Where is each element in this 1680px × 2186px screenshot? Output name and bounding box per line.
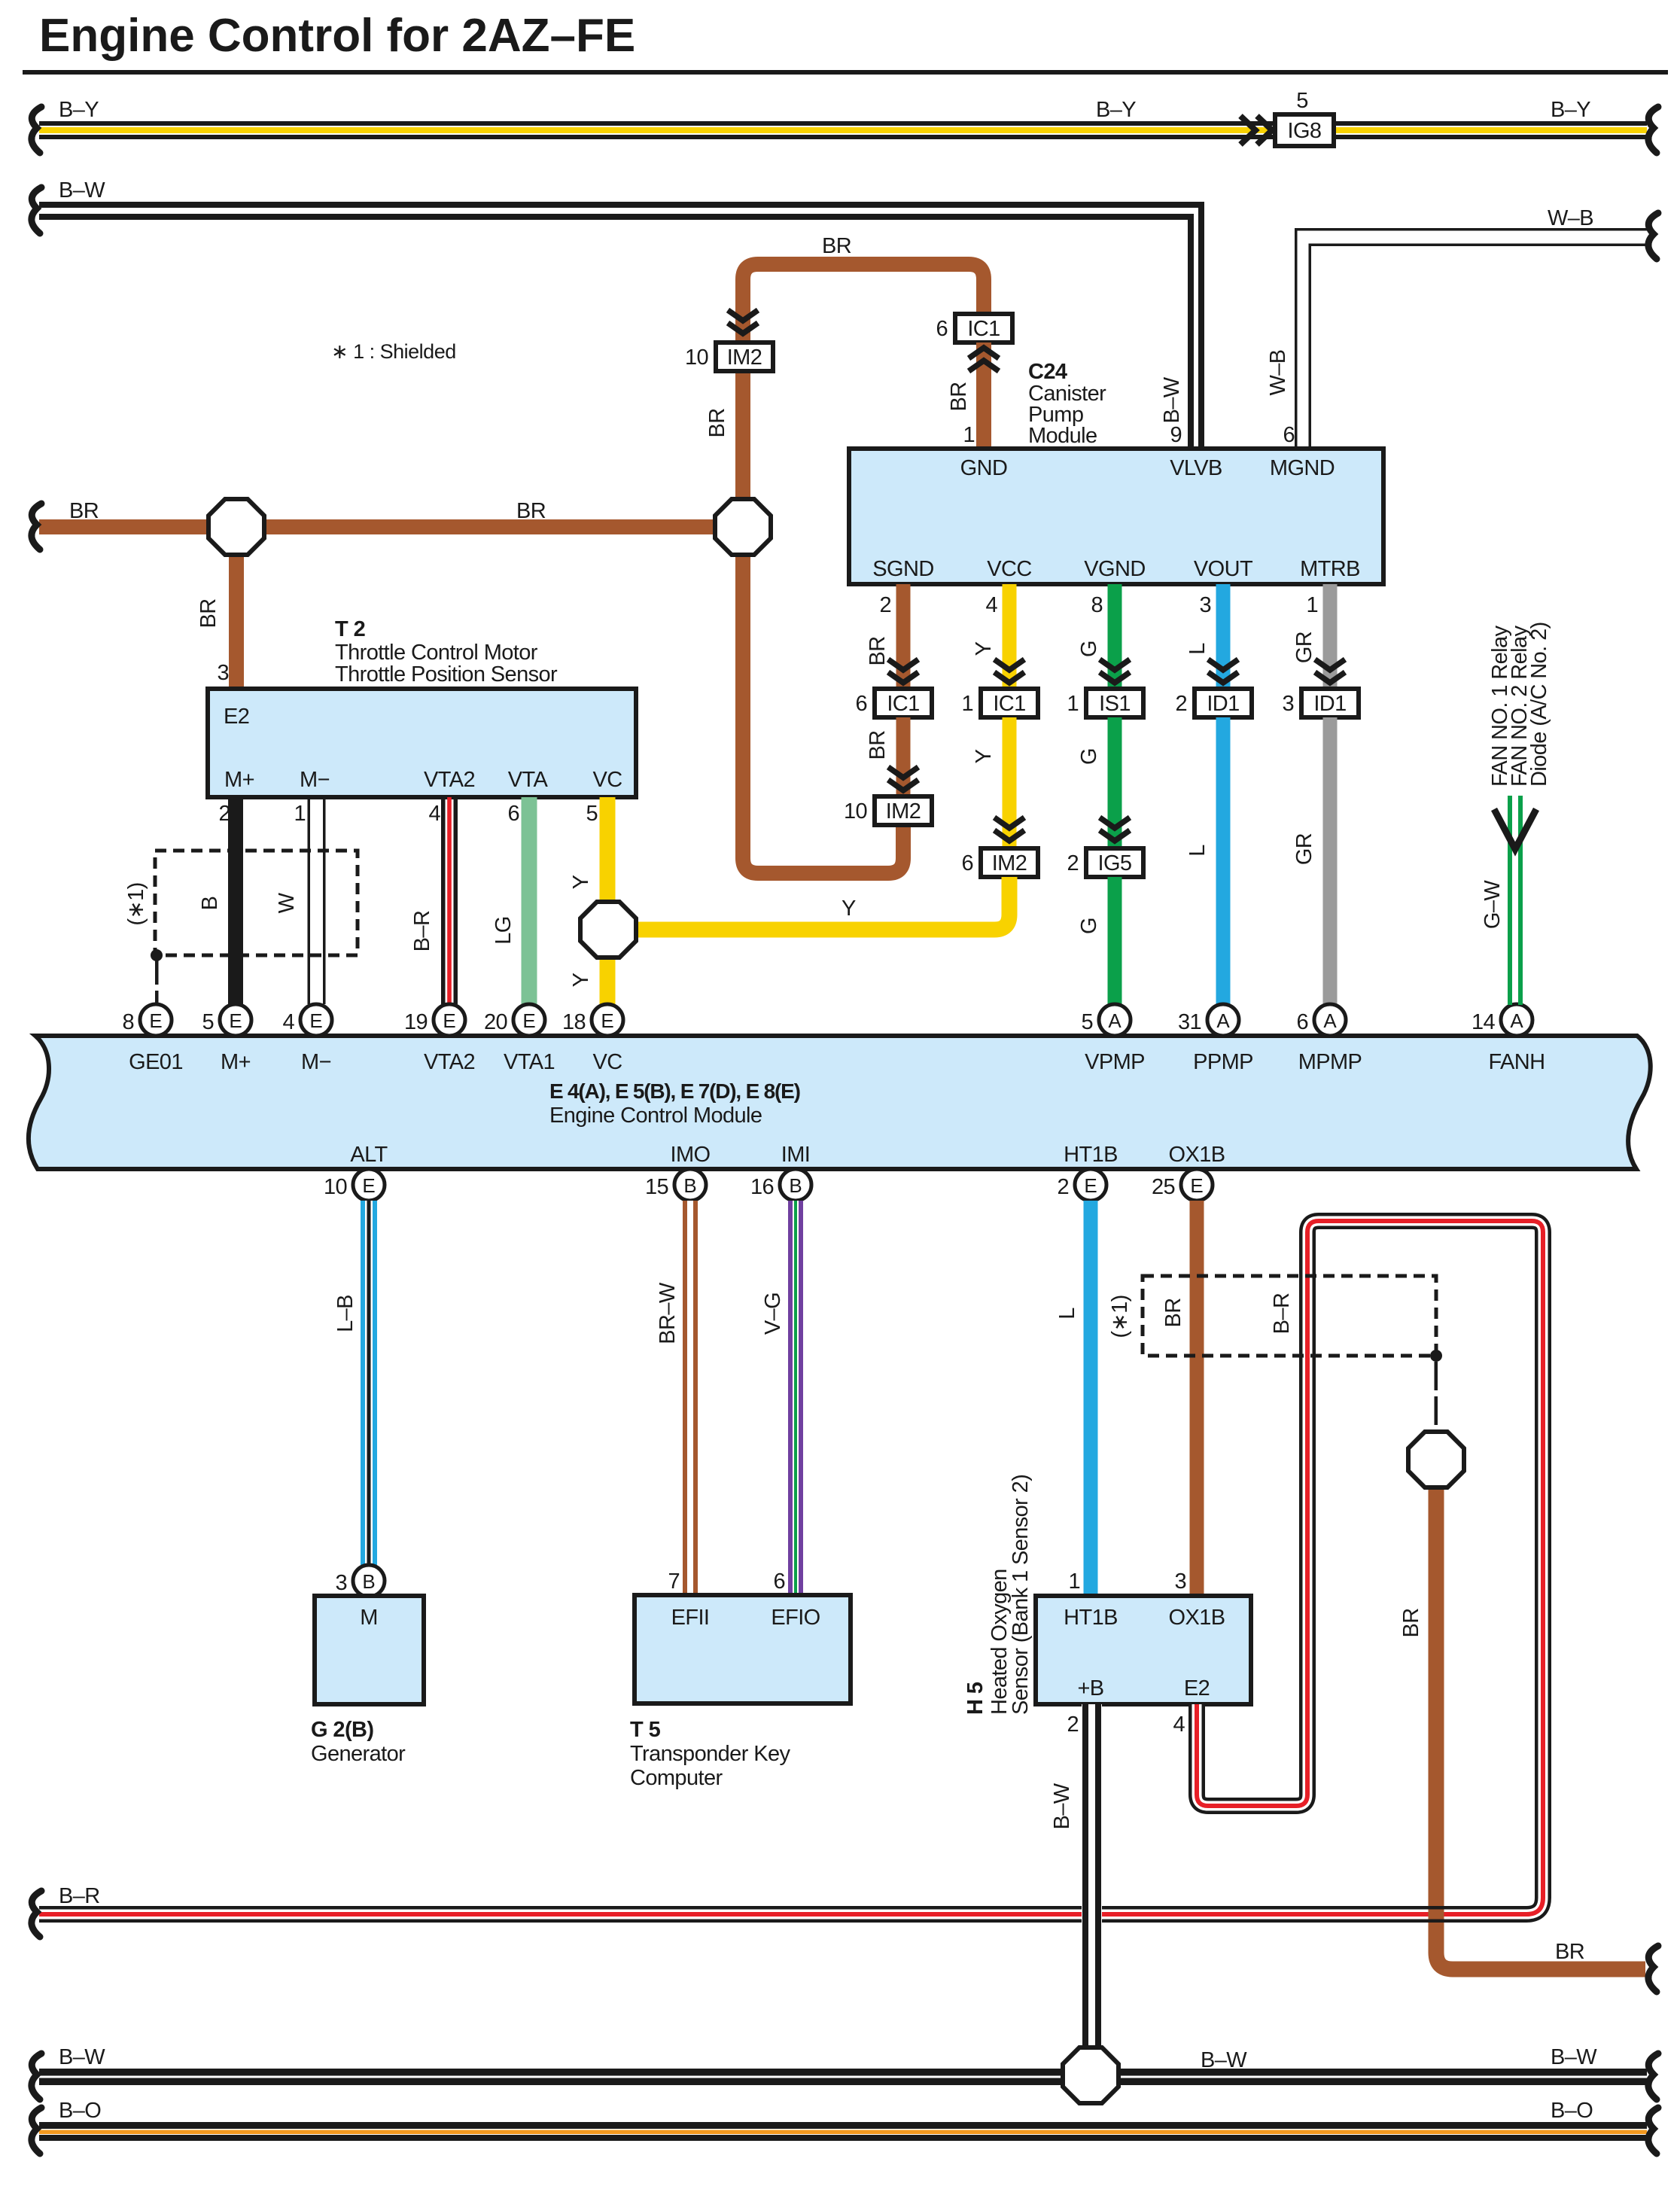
svg-text:FANH: FANH [1489,1050,1545,1074]
svg-text:W: W [275,892,299,913]
wire LG from T2 VTA [522,797,537,1004]
wire V-G IMI to T5 EFIO [788,1201,803,1595]
svg-text:Transponder Key: Transponder Key [630,1742,790,1766]
svg-text:BR: BR [1555,1940,1584,1964]
junction IG8 [1275,114,1334,146]
connector T2 Throttle Control Motor / Position Sensor [208,689,636,797]
svg-text:6: 6 [1283,423,1295,447]
svg-text:3: 3 [335,1571,347,1595]
svg-text:VLVB: VLVB [1170,456,1222,480]
node E8 GE01 [140,1004,172,1036]
svg-text:IC1: IC1 [967,317,1000,341]
wire BR horizontal bus left [39,519,212,534]
wire B from T2 M+ [228,797,243,1004]
chevron right on B-Y bus [1240,116,1272,145]
B-R bus black lines over BR crossing [1424,1906,1448,1923]
wire B-W from H5 +B down [1082,1704,1102,2047]
svg-text:B: B [362,1570,375,1593]
svg-text:2: 2 [1175,692,1187,716]
connector C24 Canister Pump Module [849,449,1383,584]
svg-text:(∗1): (∗1) [1108,1295,1132,1338]
wire Y IC1 to IM2 [1003,717,1017,850]
svg-text:GR: GR [1292,833,1316,865]
svg-text:M+: M+ [221,1050,251,1074]
svg-text:SGND: SGND [872,557,933,581]
wire B-W bus top [39,202,1204,449]
shield dashed drop to GE01 [155,961,159,985]
svg-text:BR: BR [1161,1298,1185,1327]
svg-text:G: G [1077,918,1101,934]
svg-text:2: 2 [879,593,891,617]
svg-text:Generator: Generator [311,1742,406,1766]
node A14 FANH [1501,1004,1532,1036]
svg-text:EFII: EFII [671,1606,710,1630]
svg-text:Throttle Position Sensor: Throttle Position Sensor [335,662,558,687]
wire B-R from T2 VTA2 [441,797,458,1004]
junction 6 IC1 SGND [875,689,932,717]
wire BR SGND chain [896,584,911,690]
svg-text:M−: M− [301,1050,331,1074]
svg-text:1: 1 [961,692,973,716]
svg-text:HT1B: HT1B [1064,1606,1118,1630]
svg-text:MGND: MGND [1270,456,1335,480]
svg-text:6: 6 [961,851,973,875]
svg-text:VTA: VTA [508,768,549,792]
wire GR ID1 to ECM MPMP [1323,717,1338,1005]
curl B-O left [32,2108,41,2154]
svg-text:Diode (A/C No. 2): Diode (A/C No. 2) [1527,622,1551,787]
chevron up below IC1 [969,348,999,371]
svg-text:E2: E2 [224,705,249,729]
svg-text:A: A [1323,1009,1337,1032]
svg-text:IC1: IC1 [887,692,919,716]
svg-text:2: 2 [1057,1175,1069,1199]
junction 6 IC1 top [955,314,1012,343]
junction 3 ID1 MTRB [1301,689,1359,717]
svg-text:B: B [198,897,222,911]
svg-text:G 2(B): G 2(B) [311,1718,373,1742]
svg-text:Y: Y [569,973,593,987]
svg-text:ID1: ID1 [1207,692,1239,716]
svg-text:VTA1: VTA1 [504,1050,555,1074]
junction 6 IM2 VCC [981,848,1038,877]
octagon junction 1 [208,499,264,555]
svg-text:Engine Control for 2AZ–FE: Engine Control for 2AZ–FE [39,10,635,62]
svg-text:T 2: T 2 [335,617,365,641]
svg-text:W–B: W–B [1266,349,1290,395]
svg-text:2: 2 [1067,851,1079,875]
svg-text:B–Y: B–Y [59,98,99,122]
svg-text:E: E [149,1009,162,1032]
shield dashed box 1 [155,851,358,955]
svg-text:18: 18 [562,1010,586,1034]
svg-text:BR: BR [196,598,221,628]
svg-text:B–Y: B–Y [1551,98,1590,122]
svg-text:8: 8 [122,1010,134,1034]
node A5 VPMP [1099,1004,1131,1036]
curl B-R bus left [32,1891,41,1937]
svg-text:3: 3 [1174,1569,1186,1594]
svg-text:1: 1 [1306,593,1318,617]
junction 1 IC1 VCC [981,689,1038,717]
svg-text:VCC: VCC [987,557,1031,581]
connector T5 Transponder Key Computer [635,1595,851,1703]
svg-text:V–G: V–G [761,1292,785,1335]
svg-text:VTA2: VTA2 [424,1050,475,1074]
connector G2 Generator [315,1596,424,1704]
svg-text:L: L [1185,845,1210,857]
svg-text:10: 10 [685,346,708,370]
octagon junction 4 [1408,1432,1464,1487]
svg-text:A: A [1108,1009,1122,1032]
svg-text:B–W: B–W [1551,2045,1597,2069]
svg-text:1: 1 [1068,1569,1080,1594]
svg-text:E2: E2 [1184,1676,1210,1700]
svg-text:25: 25 [1152,1175,1175,1199]
svg-text:3: 3 [1199,593,1211,617]
svg-text:E: E [1190,1174,1203,1197]
svg-text:IM2: IM2 [886,799,921,824]
svg-text:LG: LG [492,916,516,945]
svg-text:B–W: B–W [59,2045,105,2069]
wire Y VCC chain [1003,584,1017,690]
svg-text:IC1: IC1 [993,692,1025,716]
svg-text:BR: BR [822,234,851,258]
wire BR-W IMO to T5 EFII [683,1201,698,1595]
svg-text:BR: BR [866,730,890,760]
svg-text:2: 2 [218,802,230,826]
wire L HT1B to H5 [1084,1201,1098,1596]
wire G VGND chain [1108,584,1122,690]
svg-text:GE01: GE01 [129,1050,183,1074]
node B15 IMO [674,1169,706,1201]
svg-text:IS1: IS1 [1099,692,1131,716]
svg-text:IMI: IMI [781,1143,810,1167]
node A6 MPMP [1314,1004,1346,1036]
svg-text:VC: VC [592,1050,622,1074]
svg-text:(∗1): (∗1) [124,882,148,925]
node E5 M+ [220,1004,251,1036]
svg-text:VOUT: VOUT [1194,557,1253,581]
svg-text:BR: BR [947,382,971,411]
wire L ID1 to ECM PPMP [1216,717,1231,1005]
svg-text:3: 3 [1282,692,1294,716]
svg-text:E 4(A), E 5(B), E 7(D), E 8(E): E 4(A), E 5(B), E 7(D), E 8(E) [549,1079,800,1103]
node E20 VTA1 [513,1004,545,1036]
svg-text:M: M [360,1606,378,1630]
svg-text:1: 1 [963,423,975,447]
svg-text:IMO: IMO [671,1143,711,1167]
svg-text:B–O: B–O [1551,2099,1593,2123]
svg-text:E: E [601,1009,613,1032]
svg-text:IG5: IG5 [1098,851,1132,875]
octagon junction 2 [715,499,771,555]
svg-text:5: 5 [202,1010,214,1034]
svg-text:M−: M− [300,768,330,792]
svg-text:10: 10 [324,1175,347,1199]
svg-text:15: 15 [645,1175,668,1199]
svg-text:Computer: Computer [630,1766,723,1790]
svg-text:B–W: B–W [59,178,105,202]
svg-text:9: 9 [1170,423,1182,447]
svg-text:14: 14 [1472,1010,1496,1034]
wire G IG5 to ECM VPMP [1108,877,1122,1005]
svg-text:5: 5 [1081,1010,1093,1034]
chevron down above IM2 [728,310,758,333]
svg-text:BR–W: BR–W [656,1282,680,1344]
svg-text:Throttle Control Motor: Throttle Control Motor [335,641,538,665]
svg-text:1: 1 [294,802,306,826]
wire Y from T2 VC upper [600,797,616,904]
curl BR bottom right [1648,1946,1658,1992]
svg-text:Y: Y [842,897,856,921]
svg-text:BR: BR [866,636,890,665]
svg-text:B: B [683,1174,696,1197]
svg-text:E: E [522,1009,535,1032]
svg-text:4: 4 [985,593,997,617]
svg-text:6: 6 [936,317,948,341]
svg-text:B–R: B–R [59,1884,100,1908]
svg-text:8: 8 [1091,593,1103,617]
wire W-B [1295,228,1647,449]
svg-text:∗ 1 : Shielded: ∗ 1 : Shielded [331,340,456,363]
svg-text:4: 4 [1173,1713,1185,1737]
svg-text:L: L [1055,1308,1079,1320]
svg-text:Y: Y [972,749,996,763]
svg-text:B–R: B–R [1270,1293,1294,1335]
curl B-W bottom right [1648,2054,1658,2099]
svg-text:4: 4 [282,1010,294,1034]
svg-text:+B: +B [1077,1676,1103,1700]
svg-text:G: G [1077,748,1101,765]
junction 10 IM2 SGND [875,796,932,825]
junction 10 IM2 top [716,343,773,371]
wire BR top loop from IM2 to IC1 [743,264,984,501]
wire Y octagon3 to ECM VC [600,955,616,1005]
svg-text:6: 6 [1296,1010,1308,1034]
svg-text:MPMP: MPMP [1298,1050,1362,1074]
svg-text:G: G [1077,641,1101,657]
svg-text:OX1B: OX1B [1169,1143,1225,1167]
svg-text:B–W: B–W [1160,376,1184,423]
curl W-B right [1648,213,1658,259]
svg-text:B–W: B–W [1050,1783,1074,1829]
wire B-R loop H5 E2 to bottom bus [39,1221,1543,1914]
shield dashed box 2 [1143,1276,1436,1356]
wire BR IC1 to IM2 [896,717,911,798]
wire GR MTRB chain [1323,584,1338,690]
svg-text:A: A [1510,1009,1523,1032]
svg-text:VPMP: VPMP [1085,1050,1145,1074]
svg-text:B–R: B–R [410,911,434,952]
curl BR left [32,504,41,550]
svg-text:31: 31 [1178,1010,1201,1034]
shield dot junction 2 [1430,1350,1442,1362]
svg-text:6: 6 [507,802,519,826]
svg-text:ALT: ALT [350,1143,388,1167]
svg-text:H 5: H 5 [963,1682,988,1715]
svg-text:Module: Module [1028,424,1097,448]
svg-text:BR: BR [705,408,729,437]
svg-text:BR: BR [1399,1608,1423,1637]
octagon junction 3 [580,902,636,958]
wire BR octagon1 down to T2 [229,551,244,689]
svg-text:6: 6 [773,1569,785,1594]
node E18 VC [592,1004,623,1036]
svg-text:E: E [309,1009,322,1032]
svg-text:E: E [443,1009,455,1032]
svg-text:16: 16 [750,1175,774,1199]
wire G-W to FANH [1508,796,1523,1005]
svg-text:MTRB: MTRB [1300,557,1360,581]
svg-text:GR: GR [1292,632,1316,663]
node E19 VTA2 [434,1004,465,1036]
svg-text:Sensor (Bank 1 Sensor 2): Sensor (Bank 1 Sensor 2) [1009,1475,1033,1715]
junction 2 IG5 VGND [1086,848,1143,877]
svg-text:BR: BR [69,499,99,523]
wire B-O bus bottom [39,2122,1647,2141]
node E25 OX1B [1181,1169,1213,1201]
shield dot junction 1 [151,949,163,961]
svg-text:PPMP: PPMP [1193,1050,1253,1074]
node B3 generator M [353,1565,385,1597]
svg-text:E: E [229,1009,242,1032]
svg-text:G–W: G–W [1481,880,1505,929]
svg-text:E: E [362,1174,375,1197]
svg-text:B–O: B–O [59,2099,101,2123]
svg-text:T 5: T 5 [630,1718,661,1742]
node E4 M- [300,1004,332,1036]
svg-text:IM2: IM2 [727,346,762,370]
svg-text:A: A [1216,1009,1230,1032]
node A31 PPMP [1207,1004,1239,1036]
svg-text:IM2: IM2 [992,851,1027,875]
arrow on G-W [1494,809,1536,849]
svg-text:L–B: L–B [333,1295,358,1332]
svg-text:19: 19 [404,1010,428,1034]
node E10 ALT [353,1169,385,1201]
wire B-Y bus top [39,121,1647,139]
svg-text:BR: BR [516,499,546,523]
svg-text:IG8: IG8 [1288,119,1322,143]
wire W from T2 M- [308,797,326,1004]
svg-text:4: 4 [428,802,440,826]
svg-text:5: 5 [586,802,598,826]
connector ECM Engine Control Module band [29,1036,1651,1169]
svg-text:ID1: ID1 [1313,692,1346,716]
svg-text:VTA2: VTA2 [424,768,475,792]
wire L-B ALT to generator [361,1201,377,1565]
svg-text:C24: C24 [1028,360,1067,384]
octagon junction 5 on B-W bus [1063,2047,1118,2103]
junction 1 IS1 VGND [1086,689,1143,717]
svg-text:Engine Control Module: Engine Control Module [549,1104,762,1128]
wire BR IC1 to C24 GND [976,343,991,449]
svg-text:E: E [1084,1174,1097,1197]
svg-text:L: L [1185,643,1210,655]
svg-text:5: 5 [1296,89,1308,113]
svg-text:W–B: W–B [1548,206,1593,230]
svg-text:1: 1 [1067,692,1079,716]
wire BR octagon2 down then right up to IM2 lower [743,553,903,873]
svg-text:2: 2 [1067,1713,1079,1737]
svg-text:EFIO: EFIO [771,1606,820,1630]
svg-text:B–Y: B–Y [1096,98,1136,122]
shield dashed drop to octagon 4 [1435,1362,1438,1390]
svg-text:B–W: B–W [1201,2048,1247,2072]
title rule [23,70,1668,75]
svg-text:GND: GND [960,456,1008,480]
wire BR octagon4 to right curl [1436,1487,1645,1969]
node B16 IMI [780,1169,811,1201]
svg-text:20: 20 [484,1010,507,1034]
curl B-Y right [1648,107,1658,153]
wire B-W bus bottom [39,2069,1647,2085]
svg-text:7: 7 [668,1569,680,1594]
wire G IS1 to IG5 [1108,717,1122,850]
curl B-Y left [32,107,41,153]
svg-text:3: 3 [217,661,229,685]
svg-text:OX1B: OX1B [1169,1606,1225,1630]
wire L VOUT chain [1216,584,1231,690]
svg-text:B: B [789,1174,802,1197]
wire Y IM2 to octagon3 [636,877,1009,930]
svg-text:10: 10 [844,799,867,824]
svg-text:HT1B: HT1B [1064,1143,1118,1167]
svg-text:VC: VC [592,768,622,792]
wire BR OX1B to H5 [1190,1201,1204,1596]
curl B-O right [1648,2108,1658,2154]
curl B-W bottom left [32,2054,41,2099]
svg-text:6: 6 [855,692,867,716]
node E2 HT1B [1075,1169,1106,1201]
svg-text:Y: Y [972,641,996,656]
junction 2 ID1 VOUT [1195,689,1252,717]
svg-text:M+: M+ [224,768,254,792]
curl B-W left [32,187,41,233]
wire BR horizontal bus middle [262,519,718,534]
svg-text:Y: Y [569,875,593,889]
connector H5 Heated Oxygen Sensor [1036,1596,1251,1704]
svg-text:VGND: VGND [1084,557,1145,581]
